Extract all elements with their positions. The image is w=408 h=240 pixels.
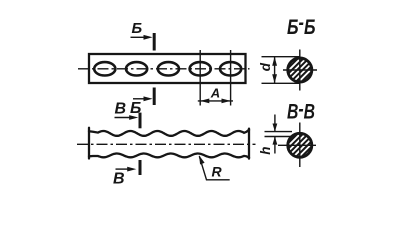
svg-text:h: h [258,147,273,155]
svg-text:В: В [115,101,127,118]
svg-text:А: А [210,85,220,100]
svg-text:d: d [258,62,273,71]
svg-text:Б: Б [132,20,143,37]
svg-text:В-В: В-В [287,98,315,124]
svg-text:В: В [113,171,125,188]
svg-text:R: R [212,164,223,180]
